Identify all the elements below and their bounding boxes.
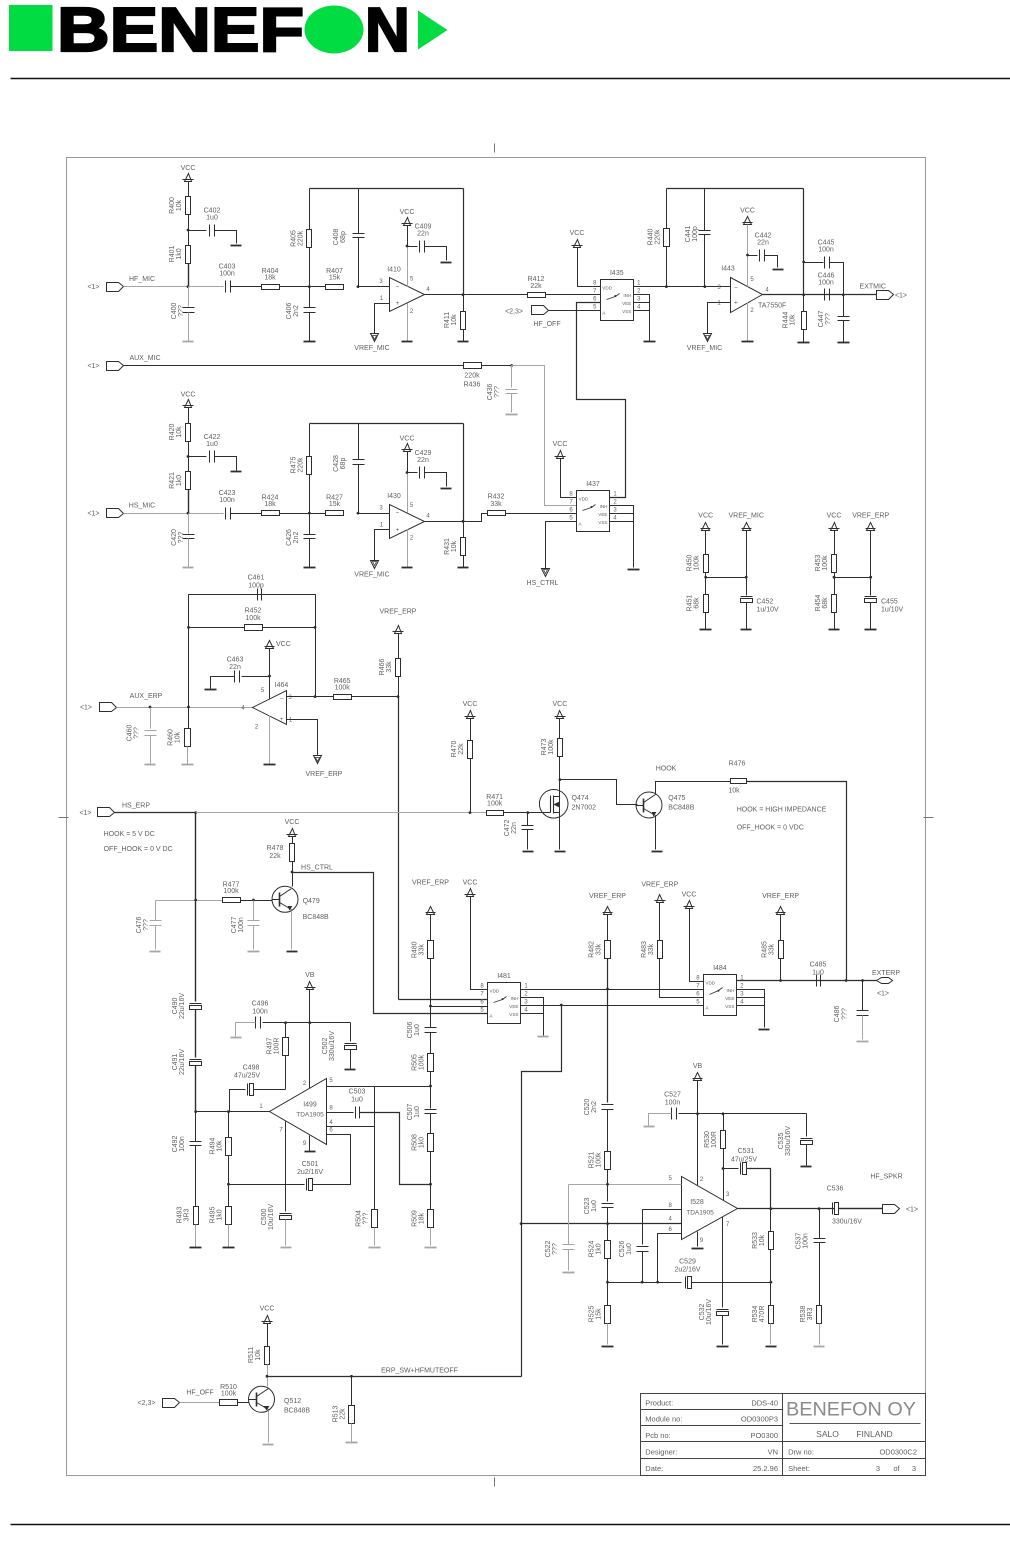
power VREF_ERP R482 [604,907,612,915]
capacitor C498 path [229,1111,230,1113]
node output junction [462,293,465,296]
wire R510 to base [238,1402,249,1404]
node junction divider right [833,576,836,579]
header rule [11,78,1010,80]
border tick top [494,144,496,153]
svg-text:+: + [280,716,284,723]
wire divider to VREF_ERP [835,577,871,579]
wire I481 pin1 net [521,989,704,991]
power VCC (VCC) [404,444,411,452]
wire output to R412 [464,294,528,296]
svg-text:3R3: 3R3 [807,1307,814,1320]
svg-text:470R: 470R [759,1306,766,1323]
wire R420 to junction [188,442,190,457]
wire node to C403 [189,286,224,288]
wire top feedback R405 [309,189,311,230]
power VCC R473 [557,711,564,719]
svg-text:I443: I443 [721,266,735,273]
ground bar C402 [231,245,242,247]
resistor R432 [488,511,506,516]
footer rule [11,1524,1010,1526]
svg-text:R493: R493 [177,1207,184,1224]
svg-text:VCC: VCC [740,208,755,215]
svg-text:10k: 10k [255,1349,262,1361]
logo green triangle [418,11,448,50]
analog switch I481 [488,983,521,1024]
svg-text:HF_OFF: HF_OFF [186,1390,213,1397]
node junction R497 top [284,1021,287,1024]
ground bar I481 [538,1036,549,1038]
resistor R511 [265,1347,270,1365]
svg-text:10u/16V: 10u/16V [268,1204,275,1230]
resistor R452 [245,625,263,631]
resistor R482 [605,941,611,959]
svg-text:C490: C490 [172,998,179,1015]
resistor R513 [349,1406,355,1424]
wire VREF_ERP to R480 [430,915,432,941]
ground bar R525 [602,1346,614,1348]
ground bar R534 [766,1346,777,1348]
capacitor C420 shunt [188,514,190,534]
svg-text:VCC: VCC [400,209,415,216]
wire VCC to I437 pin8 [561,459,577,498]
svg-text:HF_OFF: HF_OFF [533,321,560,328]
power VREF_ERP R483 [657,895,664,903]
svg-text:100n: 100n [252,1009,268,1016]
wire VCC to I435 pin8 [578,248,601,287]
wire Q512 emitter [268,1411,270,1443]
svg-text:Q474: Q474 [572,795,589,802]
svg-text:VCC: VCC [285,819,300,826]
resistor R533 [769,1232,774,1250]
svg-text:100k: 100k [335,685,351,692]
svg-text:R470: R470 [451,741,458,758]
ground bar I443 pin2 [742,341,754,343]
ground bar op-amp [402,567,413,569]
svg-text:VCC: VCC [570,230,585,237]
svg-text:C526: C526 [619,1241,626,1258]
wire R485 to EXTERP net [780,959,782,981]
power VCC I484 [686,901,693,909]
svg-text:DDS-40: DDS-40 [751,1398,778,1407]
svg-text:Designer:: Designer: [645,1447,677,1456]
ground bar Q475 [652,851,663,853]
svg-text:C452: C452 [757,599,774,606]
svg-text:R432: R432 [488,494,505,501]
svg-text:C496: C496 [252,1001,269,1008]
wire top feedback rail [310,423,464,425]
wire C531 to output node [747,1169,771,1209]
svg-text:C476: C476 [136,917,143,934]
node junction rail input [194,1110,197,1113]
ground bar C535 [801,1166,812,1168]
node junction C506 [429,1005,432,1008]
wire R465 to R466 junction [352,696,399,698]
wire Q479 collector [291,887,293,889]
svg-text:R405: R405 [290,230,297,247]
wire C409 to ground [425,247,447,261]
capacitor C498 [247,1084,249,1096]
power VB arrow [307,982,314,990]
svg-text:C400: C400 [171,303,178,320]
svg-text:VEE: VEE [598,512,607,517]
wire I499 pin8 to C503 [327,1112,354,1114]
pin 2 wire to ground [407,530,409,568]
svg-text:R534: R534 [752,1306,759,1323]
svg-text:VREF_ERP: VREF_ERP [380,609,417,616]
svg-text:TDA1905: TDA1905 [296,1112,324,1119]
svg-text:18k: 18k [264,275,276,282]
wire node to C423 [189,513,224,515]
capacitor C523 [602,1203,614,1205]
op-amp I464 (mirrored) [253,691,287,725]
svg-text:Module no:: Module no: [645,1414,682,1423]
wire R505 to junction [430,1072,432,1109]
capacitor C442 [748,255,758,257]
svg-text:25.2.96: 25.2.96 [753,1464,778,1473]
wire R482 down to C520 [607,959,609,1103]
node junction R521/pin5 [606,1183,609,1186]
svg-text:VEE: VEE [725,996,734,1001]
amplifier I499 TDA1905 (tip left) [270,1079,327,1145]
svg-text:R524: R524 [589,1241,596,1258]
wire op-amp output [425,521,464,523]
resistor R475 feedback [307,457,312,475]
ground bar C463 [205,689,217,691]
svg-text:1k0: 1k0 [217,1209,224,1220]
wire C503 to R509 node [360,1113,432,1185]
wire divider to VREF_MIC [706,577,747,579]
wire I443 output [763,294,877,296]
ground bar C429 [441,488,452,490]
svg-text:R480: R480 [412,941,419,958]
wire C403 to R404 [231,286,262,288]
svg-text:100k: 100k [596,1152,603,1168]
svg-text:22n: 22n [757,240,769,247]
svg-text:−: − [280,696,284,703]
svg-text:C502: C502 [322,1038,329,1055]
svg-text:18k: 18k [264,501,276,508]
svg-text:BC848B: BC848B [668,805,694,812]
svg-text:22n: 22n [417,231,429,238]
node junction R466 [397,695,400,698]
ground bar I435 [644,341,656,343]
wire C529 to R533 node [692,1282,771,1284]
svg-text:47u/25V: 47u/25V [234,1073,260,1080]
svg-text:68k: 68k [822,597,829,609]
resistor R465 [334,695,352,700]
svg-text:R521: R521 [589,1152,596,1169]
wire I528 pin9 ground [697,1232,699,1247]
wire I481 pin6 link [431,1006,488,1008]
svg-text:10k: 10k [176,199,183,211]
logo green O [305,6,364,54]
node output junction [462,520,465,523]
svg-text:BENEF: BENEF [57,0,304,65]
resistor R524 wire [607,1224,609,1241]
capacitor C441 [704,189,706,231]
capacitor C408 feedback [358,189,360,234]
svg-text:VREF_ERP: VREF_ERP [641,882,678,889]
wire I481 pin2/pin4 stubs [521,998,544,1036]
svg-text:1k0: 1k0 [176,248,183,259]
svg-text:???: ??? [363,1213,370,1225]
svg-text:R431: R431 [444,538,451,555]
ground bar I484 [759,1029,770,1031]
ground VREF_ERP arrow I464 [314,756,322,764]
wire I528 pin5 net [569,1184,682,1186]
svg-text:<1>: <1> [877,991,889,998]
wire HS_ERP to comparator [196,812,487,814]
svg-text:1u0: 1u0 [351,1097,363,1104]
pin 5 wire to VCC [407,473,409,513]
capacitor C452 [741,596,753,598]
node junction pin4/C523 [606,1222,609,1225]
svg-text:C455: C455 [881,599,898,606]
svg-text:HS_ERP: HS_ERP [122,803,150,810]
svg-text:I499: I499 [303,1102,317,1109]
node junction switch audio [560,1004,563,1007]
wire VREF_MIC down [746,531,748,596]
svg-text:C485: C485 [810,962,827,969]
title block row lines [641,1409,783,1411]
node junction C feedback [357,512,360,515]
resistor R473 [558,739,563,757]
wire I528 output [738,1208,883,1210]
wire feedback top I443 [667,188,804,190]
svg-text:15k: 15k [596,1308,603,1320]
wire I499 pin9 ground [309,1136,311,1151]
svg-text:C426: C426 [286,529,293,546]
analog switch I437 [577,491,610,532]
wire R476 to EXTERP node [747,782,847,981]
svg-text:R525: R525 [589,1306,596,1323]
capacitor C496 [263,1022,286,1024]
svg-text:Drw no:: Drw no: [788,1447,814,1456]
svg-text:C500: C500 [261,1209,268,1226]
resistor R470 [468,741,473,759]
ground bar C436 [506,414,518,416]
ground HS_CTRL arrow [542,569,550,577]
wire R401 to input node [188,264,190,287]
node junction C477 [252,899,255,902]
svg-text:VREF_MIC: VREF_MIC [728,513,763,520]
svg-text:<2,3>: <2,3> [138,1400,156,1407]
power VREF_ERP R480 [427,907,435,915]
svg-text:I464: I464 [275,682,289,689]
title block divider [782,1394,784,1476]
svg-text:18k: 18k [419,1212,426,1224]
svg-text:C520: C520 [584,1099,591,1116]
ground bar R444 [798,342,810,344]
wire junction to R421 [188,457,190,472]
svg-text:C472: C472 [504,820,511,837]
node junction HOOK net [845,979,848,982]
wire R533 to R534 [770,1250,772,1306]
ground VREF_MIC arrow [371,334,379,342]
wire I437 pins 2-4 to ground [610,506,634,568]
resistor R485 [779,941,784,959]
resistor R476 [731,779,747,784]
svg-text:???: ??? [842,1008,849,1020]
ground bar I464 pin2 [264,764,276,766]
svg-text:Sheet:: Sheet: [788,1464,810,1473]
svg-text:I410: I410 [387,267,401,274]
sheet border [67,158,926,1476]
resistor R420 [186,424,191,442]
wire feedback left down [188,628,190,708]
svg-text:10k: 10k [759,1234,766,1246]
ground VREF_MIC arrow I443 [704,334,712,342]
svg-text:33k: 33k [386,661,393,673]
wire R521 to pin5 node [607,1170,609,1185]
wire feedback right down to -in [315,628,317,697]
svg-text:C408: C408 [333,229,340,246]
svg-text:VCC: VCC [553,701,568,708]
capacitor C506 [430,1007,432,1028]
svg-text:2n2: 2n2 [293,532,300,544]
svg-text:VREF_MIC: VREF_MIC [354,345,389,352]
wire I499 pin4 net [327,1126,375,1128]
capacitor C536 [832,1203,834,1215]
wire R473 to drain [559,757,561,797]
svg-text:I430: I430 [387,493,401,500]
svg-text:VCC: VCC [463,701,478,708]
wire junction to I437 pin7 [512,366,577,506]
wire HF_OFF to R510 [180,1402,220,1404]
capacitor C531 [724,1168,739,1170]
svg-text:C409: C409 [415,224,432,231]
resistor R524 [605,1241,611,1259]
wire C445 to output [830,263,844,295]
node junction C463 [268,675,271,678]
wire I484 pin1 to EXTERP [737,980,877,982]
svg-text:C460: C460 [127,725,134,742]
wire R421 to input node [188,490,190,514]
svg-text:VREF_ERP: VREF_ERP [306,771,343,778]
wire base net [156,900,223,902]
svg-text:I481: I481 [497,973,511,980]
svg-text:<2,3>: <2,3> [505,309,523,316]
svg-text:VB: VB [305,972,315,979]
svg-text:100k: 100k [245,615,261,622]
svg-text:C402: C402 [204,208,221,215]
wire I481 pin3 to I484 pin5 [521,1005,704,1007]
svg-text:I437: I437 [586,481,600,488]
wire output jog to R432 [464,514,488,522]
wire non-inverting input [375,304,390,334]
svg-text:INH: INH [600,504,608,509]
svg-text:1u/10V: 1u/10V [881,607,904,614]
node junction output [802,294,805,297]
capacitor C520 [602,1104,614,1106]
svg-text:R436: R436 [464,382,481,389]
svg-text:VSS: VSS [725,1004,734,1009]
node junction C436 [510,364,513,367]
ground bar R513 [346,1442,358,1444]
transistor Q474 2N7002 (NMOS) [539,790,568,819]
analog switch I484 [704,975,737,1016]
wire VCC to R511 [267,1324,269,1347]
power VCC I464 [266,641,274,649]
wire to op-amp inverting input [359,513,390,515]
svg-text:VSS: VSS [598,520,607,525]
capacitor C436 [511,366,513,388]
wire I443 pin2 to ground [747,303,749,342]
svg-text:33k: 33k [419,944,426,956]
wire HOOK to Q475 base [560,780,638,805]
node junction HS_ERP rail [194,811,197,814]
power VCC (VCC) [185,400,192,408]
wire bootstrap rail [608,1282,682,1284]
capacitor C500 [280,1213,292,1215]
wire VREF_ERP to R466 [398,634,400,659]
svg-text:33k: 33k [490,501,502,508]
svg-text:220k: 220k [297,457,304,473]
wire to R513 [351,1377,353,1406]
svg-text:C446: C446 [818,273,835,280]
wire feedback top C461 [189,595,316,628]
svg-text:R538: R538 [800,1306,807,1323]
wire R424 to junction [280,513,310,515]
svg-text:of: of [893,1464,900,1473]
wire junction to C402 [189,230,207,232]
svg-text:C531: C531 [738,1148,755,1155]
node junction pin5 net [429,1085,432,1088]
wire R404 to junction [280,286,310,288]
svg-text:10k: 10k [451,314,458,326]
svg-text:22u/16V: 22u/16V [179,1049,186,1075]
svg-text:100n: 100n [818,280,834,287]
power VCC I443 pin5 [744,217,752,225]
power VCC R511 [264,1316,271,1324]
svg-text:R473: R473 [541,739,548,756]
wire feedback R452 rail [189,627,316,629]
node junction C442 [746,254,749,257]
wire HS_ERP input [115,812,196,814]
connector AUX_MIC &lt;1&gt; [107,362,124,371]
border tick left [59,817,69,819]
capacitor C429 [408,472,418,474]
svg-text:22k: 22k [458,743,465,755]
svg-text:TDA1905: TDA1905 [686,1210,714,1217]
svg-text:R482: R482 [589,941,596,958]
node junction HOOK [559,778,562,781]
node junction C460 [149,706,152,709]
title block frame [641,1394,926,1476]
capacitor C409 [408,246,418,248]
node junction C feedback [357,285,360,288]
svg-text:15k: 15k [329,275,341,282]
svg-text:1u/10V: 1u/10V [757,607,780,614]
capacitor C491 coupling [190,1059,202,1061]
svg-text:22n: 22n [229,664,241,671]
svg-text:BC848B: BC848B [284,1408,310,1415]
wire audio to I528 pin4 [522,1006,610,1224]
svg-text:VEE: VEE [622,301,631,306]
svg-text:TA7550F: TA7550F [758,303,786,310]
svg-text:VREF_ERP: VREF_ERP [852,513,889,520]
wire rail down C492 [195,1112,197,1142]
svg-text:22k: 22k [269,853,281,860]
ground bar I437 [628,569,640,571]
wire R508 to junction [430,1152,432,1210]
node junction HS_CTRL [291,871,294,874]
svg-text:R508: R508 [412,1134,419,1151]
svg-text:C535: C535 [778,1133,785,1150]
wire earpiece rail [195,813,197,1002]
svg-text:100k: 100k [822,555,829,571]
